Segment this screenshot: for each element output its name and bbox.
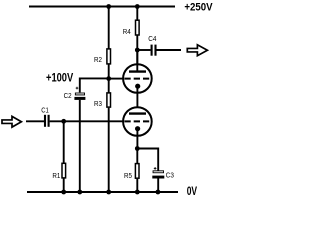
capacitor C2 (electrolytic) (64, 87, 86, 100)
plate bar V1 (129, 70, 146, 72)
wire R3 to 0V (108, 108, 110, 192)
svg-text:R3: R3 (94, 99, 102, 108)
triode V1 (upper) (123, 52, 152, 93)
wire V2 cathode lead (136, 129, 138, 149)
svg-text:R5: R5 (124, 171, 132, 180)
output arrow (187, 45, 207, 56)
wire top rail +250V (29, 6, 175, 8)
svg-text:C2: C2 (64, 91, 72, 100)
node R3 / 0V (106, 190, 111, 195)
node cathode/R5/C3 junction (135, 146, 140, 151)
cathode dot V2 (135, 126, 140, 131)
wire R2 bottom lead (108, 64, 110, 92)
svg-text:0V: 0V (187, 185, 198, 198)
svg-text:R4: R4 (123, 27, 131, 36)
resistor R1 (52, 163, 65, 180)
wire cathode node to C3 (137, 149, 158, 171)
grid dashes V2 (124, 120, 149, 122)
resistor R2 (94, 49, 111, 64)
wire +100V node to C2 (80, 78, 109, 92)
node C2 / 0V (77, 190, 82, 195)
wire R4 top lead (136, 7, 138, 20)
wire input to C1 (26, 120, 44, 122)
input arrow (2, 116, 21, 127)
svg-text:R1: R1 (52, 171, 60, 180)
svg-text:C4: C4 (148, 34, 156, 43)
node R5 / 0V (135, 190, 140, 195)
node top rail / R4 junction (135, 4, 140, 9)
wire C4 to output (157, 49, 182, 51)
wire R1 top lead (63, 121, 65, 163)
wire R5 bottom lead (136, 179, 138, 192)
wire anode node to C4 (137, 49, 150, 51)
cathode dot V1 (135, 84, 140, 89)
node top rail / R2 junction (106, 4, 111, 9)
wire C1 to grid of V2 (50, 120, 124, 122)
node C3 / 0V (156, 190, 161, 195)
wire R2 top lead (108, 7, 110, 49)
triode V2 (lower) (123, 107, 152, 136)
wire R1 bottom lead (63, 179, 65, 193)
svg-text:+100V: +100V (46, 71, 74, 85)
wire bottom rail 0V (27, 191, 178, 193)
wire V1 cathode to V2 anode (136, 86, 138, 113)
svg-text:R2: R2 (94, 55, 102, 64)
wire R5 top lead (136, 149, 138, 164)
svg-text:C1: C1 (41, 106, 49, 115)
wire C3 to 0V (157, 178, 159, 192)
wire C2 to 0V (79, 100, 81, 192)
resistor R5 (124, 164, 139, 180)
capacitor C1 (41, 106, 49, 127)
node R2/R3/C2/grid junction (106, 76, 111, 81)
node R1 / 0V (61, 190, 66, 195)
capacitor C4 (148, 34, 156, 56)
resistor R4 (123, 20, 139, 36)
capacitor C3 (electrolytic) (152, 167, 174, 180)
grid dashes V1 (124, 78, 149, 80)
plate lead V1 (136, 52, 138, 71)
wire grid of V1 (109, 78, 124, 80)
svg-text:+250V: +250V (184, 1, 213, 13)
node C1 / R1 junction (61, 119, 66, 124)
resistor R3 (94, 93, 111, 108)
node anode / C4 junction (135, 48, 140, 53)
wire R4 bottom / anode lead (136, 35, 138, 70)
plate bar V2 (129, 112, 146, 114)
svg-text:C3: C3 (166, 171, 174, 180)
